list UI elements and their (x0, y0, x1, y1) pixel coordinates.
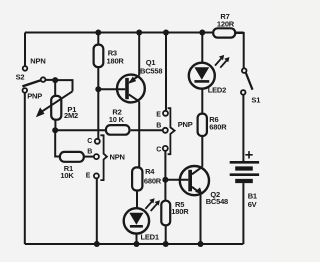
svg-text:10K: 10K (60, 171, 74, 180)
switch S2 NPN contact (23, 66, 28, 71)
svg-text:S2: S2 (16, 72, 25, 81)
svg-text:NPN: NPN (110, 153, 125, 162)
potentiometer P1 wiper arrow (41, 91, 73, 112)
wire R4 bottom to LED1 (136, 191, 138, 209)
svg-text:E: E (86, 172, 91, 179)
wire R5 bottom to bottom bus (165, 225, 167, 244)
wire LED2 to top bus (201, 33, 203, 63)
terminal C (NPN socket) (95, 139, 100, 144)
terminal C (PNP socket) (163, 146, 168, 151)
terminal E (NPN socket) (94, 173, 99, 178)
LED1 light arrows (145, 202, 157, 211)
svg-text:LED2: LED2 (208, 86, 226, 95)
switch S2 lever (22, 80, 40, 86)
LED1 (124, 208, 149, 233)
wire node to R2 left (55, 129, 107, 131)
NPN socket bracket (100, 135, 107, 180)
svg-text:BC558: BC558 (140, 67, 162, 76)
switch S2 PNP contact (23, 88, 28, 93)
node P1 bottom junction (52, 127, 58, 133)
wire R2 right to PNP B terminal (131, 129, 163, 131)
node P1 top junction (52, 77, 58, 83)
wire Q2 collector to R6 (201, 136, 203, 167)
wire node to P1 top (54, 80, 56, 96)
Q1 collector (129, 94, 139, 101)
svg-text:2M2: 2M2 (64, 111, 78, 120)
wire R7 right to S1 (235, 33, 244, 68)
wire Q1 base (98, 88, 125, 90)
wire Q2 base (165, 179, 188, 181)
terminal B (PNP socket) (163, 128, 168, 133)
resistor R4 body (132, 167, 142, 190)
wire S2 pole to P1 node (45, 79, 55, 81)
wire top bus (25, 32, 244, 34)
svg-text:C: C (156, 146, 161, 153)
resistor R6 body (198, 114, 207, 136)
node bottom bus R5 (163, 241, 169, 247)
svg-text:NPN: NPN (30, 57, 45, 66)
svg-text:BC548: BC548 (206, 197, 228, 206)
node Q1 base junction (95, 86, 101, 92)
wire bus to R3 top (97, 33, 99, 45)
terminal B (NPN socket) (94, 154, 99, 159)
svg-text:180R: 180R (107, 57, 125, 66)
svg-text:10 K: 10 K (109, 115, 125, 124)
svg-text:PNP: PNP (27, 92, 42, 101)
wire Q1 emitter to top bus (138, 33, 140, 76)
svg-text:C: C (87, 138, 92, 145)
potentiometer P1 body (51, 96, 61, 120)
node top bus Q1 emitter (136, 30, 142, 36)
wire PNP E terminal to top bus (165, 33, 167, 111)
wire R6 top to LED2 (201, 89, 203, 114)
wire bottom bus (25, 243, 244, 245)
switch S1 lever (246, 73, 253, 90)
Q2 collector (192, 167, 202, 175)
Q2 emitter (arrow away from base, NPN) (192, 187, 201, 194)
transistor Q2 BC548 (180, 166, 209, 195)
node bottom bus Q2 emitter (198, 241, 204, 247)
LED2 (189, 63, 215, 89)
wire node down to R1 left (55, 130, 60, 156)
svg-text:6V: 6V (248, 200, 257, 209)
battery B1 plate 4 (short thick) (235, 179, 253, 183)
svg-text:LED1: LED1 (141, 232, 159, 241)
svg-text:E: E (156, 112, 161, 119)
wire Q2 emitter to bottom bus (200, 193, 202, 244)
node top bus PNP E (163, 30, 169, 36)
resistor R5 body (161, 201, 170, 226)
wire NPN E terminal to bottom bus (96, 178, 98, 244)
wire Q1 collector down to R4 (138, 101, 140, 167)
node Q2 base junction (162, 177, 168, 183)
svg-text:R4: R4 (145, 167, 155, 176)
svg-text:S1: S1 (251, 95, 260, 104)
node top bus R3 junction (95, 30, 101, 36)
wire left rail lower (S2 PNP contact to bottom bus) (24, 93, 26, 244)
svg-text:120R: 120R (217, 19, 235, 28)
LED2 light arrows (215, 58, 227, 67)
resistor R1 body (60, 152, 84, 162)
battery B1 plus sign (245, 151, 252, 158)
switch S1 top contact (242, 68, 247, 73)
wire battery to bottom bus (242, 183, 244, 244)
wire PNP C terminal down to Q2 base node (164, 151, 166, 201)
terminal E (PNP socket) (163, 111, 168, 116)
battery B1 plate 1 (long) (230, 161, 259, 164)
switch S1 bottom contact (241, 90, 246, 95)
wire S1 to battery (242, 95, 244, 161)
wire P1 wiper connection (55, 80, 72, 91)
svg-text:B: B (87, 149, 92, 156)
PNP socket bracket (168, 108, 175, 154)
wire LED1 to bottom bus (136, 234, 138, 244)
node top bus LED2/R7 (199, 30, 205, 36)
wire left rail upper (top bus to S2 NPN contact) (24, 33, 26, 67)
svg-text:B: B (156, 123, 161, 130)
resistor R3 body (94, 45, 104, 68)
wire R3 bottom to NPN C terminal (97, 67, 99, 139)
switch S2 pole contact (41, 77, 46, 82)
resistor R2 body (106, 125, 130, 135)
node bottom bus LED1 (134, 241, 140, 247)
svg-text:680R: 680R (209, 122, 227, 131)
svg-text:180R: 180R (171, 207, 189, 216)
Q1 emitter (arrow toward base, PNP) (130, 75, 140, 82)
svg-text:680R: 680R (144, 176, 162, 185)
resistor R7 body (213, 28, 235, 37)
wire R1 right to NPN B terminal (84, 156, 94, 158)
transistor Q1 BC558 (117, 75, 145, 103)
node bottom bus NPN E (94, 241, 100, 247)
battery B1 plate 3 (long) (230, 173, 259, 176)
battery B1 plate 2 (short thick) (235, 166, 253, 170)
svg-text:PNP: PNP (178, 120, 193, 129)
wire P1 bottom to node (54, 120, 56, 131)
